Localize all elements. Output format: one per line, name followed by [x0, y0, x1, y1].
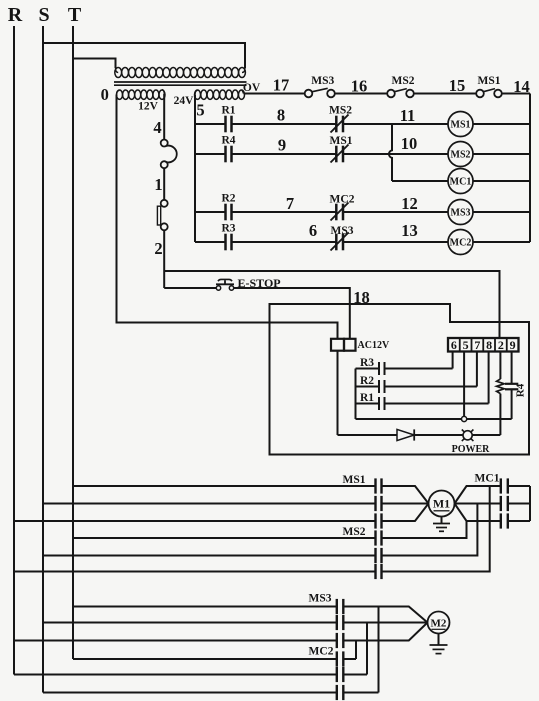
svg-text:MS1: MS1 [330, 135, 353, 147]
svg-text:MS3: MS3 [331, 225, 354, 237]
svg-text:POWER: POWER [452, 444, 491, 455]
svg-text:R3: R3 [360, 357, 374, 369]
svg-text:MC1: MC1 [450, 177, 472, 188]
svg-text:4: 4 [153, 118, 161, 137]
svg-text:R3: R3 [221, 223, 235, 235]
svg-text:12V: 12V [138, 101, 159, 113]
svg-text:2: 2 [498, 338, 504, 352]
svg-text:15: 15 [449, 76, 466, 95]
svg-text:MS1: MS1 [343, 474, 366, 486]
svg-text:M1: M1 [433, 497, 450, 511]
svg-text:13: 13 [401, 221, 418, 240]
svg-text:T: T [68, 4, 82, 26]
svg-text:MC2: MC2 [309, 646, 334, 658]
svg-text:MS2: MS2 [329, 104, 352, 116]
svg-text:6: 6 [309, 221, 317, 240]
svg-text:R2: R2 [360, 375, 374, 387]
svg-text:MS2: MS2 [392, 75, 415, 87]
svg-text:8: 8 [277, 106, 285, 125]
svg-text:MS3: MS3 [311, 75, 334, 87]
svg-text:MS2: MS2 [343, 526, 366, 538]
svg-text:17: 17 [273, 76, 290, 95]
svg-text:9: 9 [278, 136, 286, 155]
svg-text:R: R [8, 4, 23, 26]
svg-text:R4: R4 [515, 383, 527, 397]
svg-text:0: 0 [101, 85, 109, 104]
svg-text:MS1: MS1 [451, 120, 471, 131]
svg-text:OV: OV [243, 82, 261, 94]
svg-text:R1: R1 [360, 392, 374, 404]
svg-text:MS2: MS2 [451, 150, 471, 161]
svg-text:MS3: MS3 [451, 208, 471, 219]
svg-text:MC2: MC2 [330, 193, 355, 205]
svg-text:11: 11 [400, 106, 416, 125]
svg-text:8: 8 [486, 338, 492, 352]
svg-text:10: 10 [401, 134, 418, 153]
svg-text:R1: R1 [221, 105, 235, 117]
svg-text:1: 1 [154, 175, 162, 194]
svg-text:M2: M2 [431, 617, 447, 629]
svg-text:5: 5 [463, 338, 469, 352]
svg-text:7: 7 [474, 338, 480, 352]
svg-text:24V: 24V [174, 95, 195, 107]
svg-text:S: S [38, 4, 49, 26]
svg-text:MS1: MS1 [478, 75, 501, 87]
svg-text:MS3: MS3 [309, 593, 332, 605]
svg-text:AC12V: AC12V [358, 340, 390, 351]
svg-text:R4: R4 [221, 135, 235, 147]
svg-text:MC1: MC1 [475, 473, 500, 485]
svg-text:6: 6 [451, 338, 457, 352]
svg-text:12: 12 [401, 194, 418, 213]
svg-text:7: 7 [286, 194, 294, 213]
svg-text:R2: R2 [221, 193, 235, 205]
svg-text:14: 14 [513, 77, 530, 96]
svg-text:2: 2 [154, 239, 162, 258]
svg-text:5: 5 [196, 101, 204, 120]
svg-text:16: 16 [351, 77, 368, 96]
svg-text:9: 9 [510, 338, 516, 352]
svg-text:MC2: MC2 [450, 238, 472, 249]
